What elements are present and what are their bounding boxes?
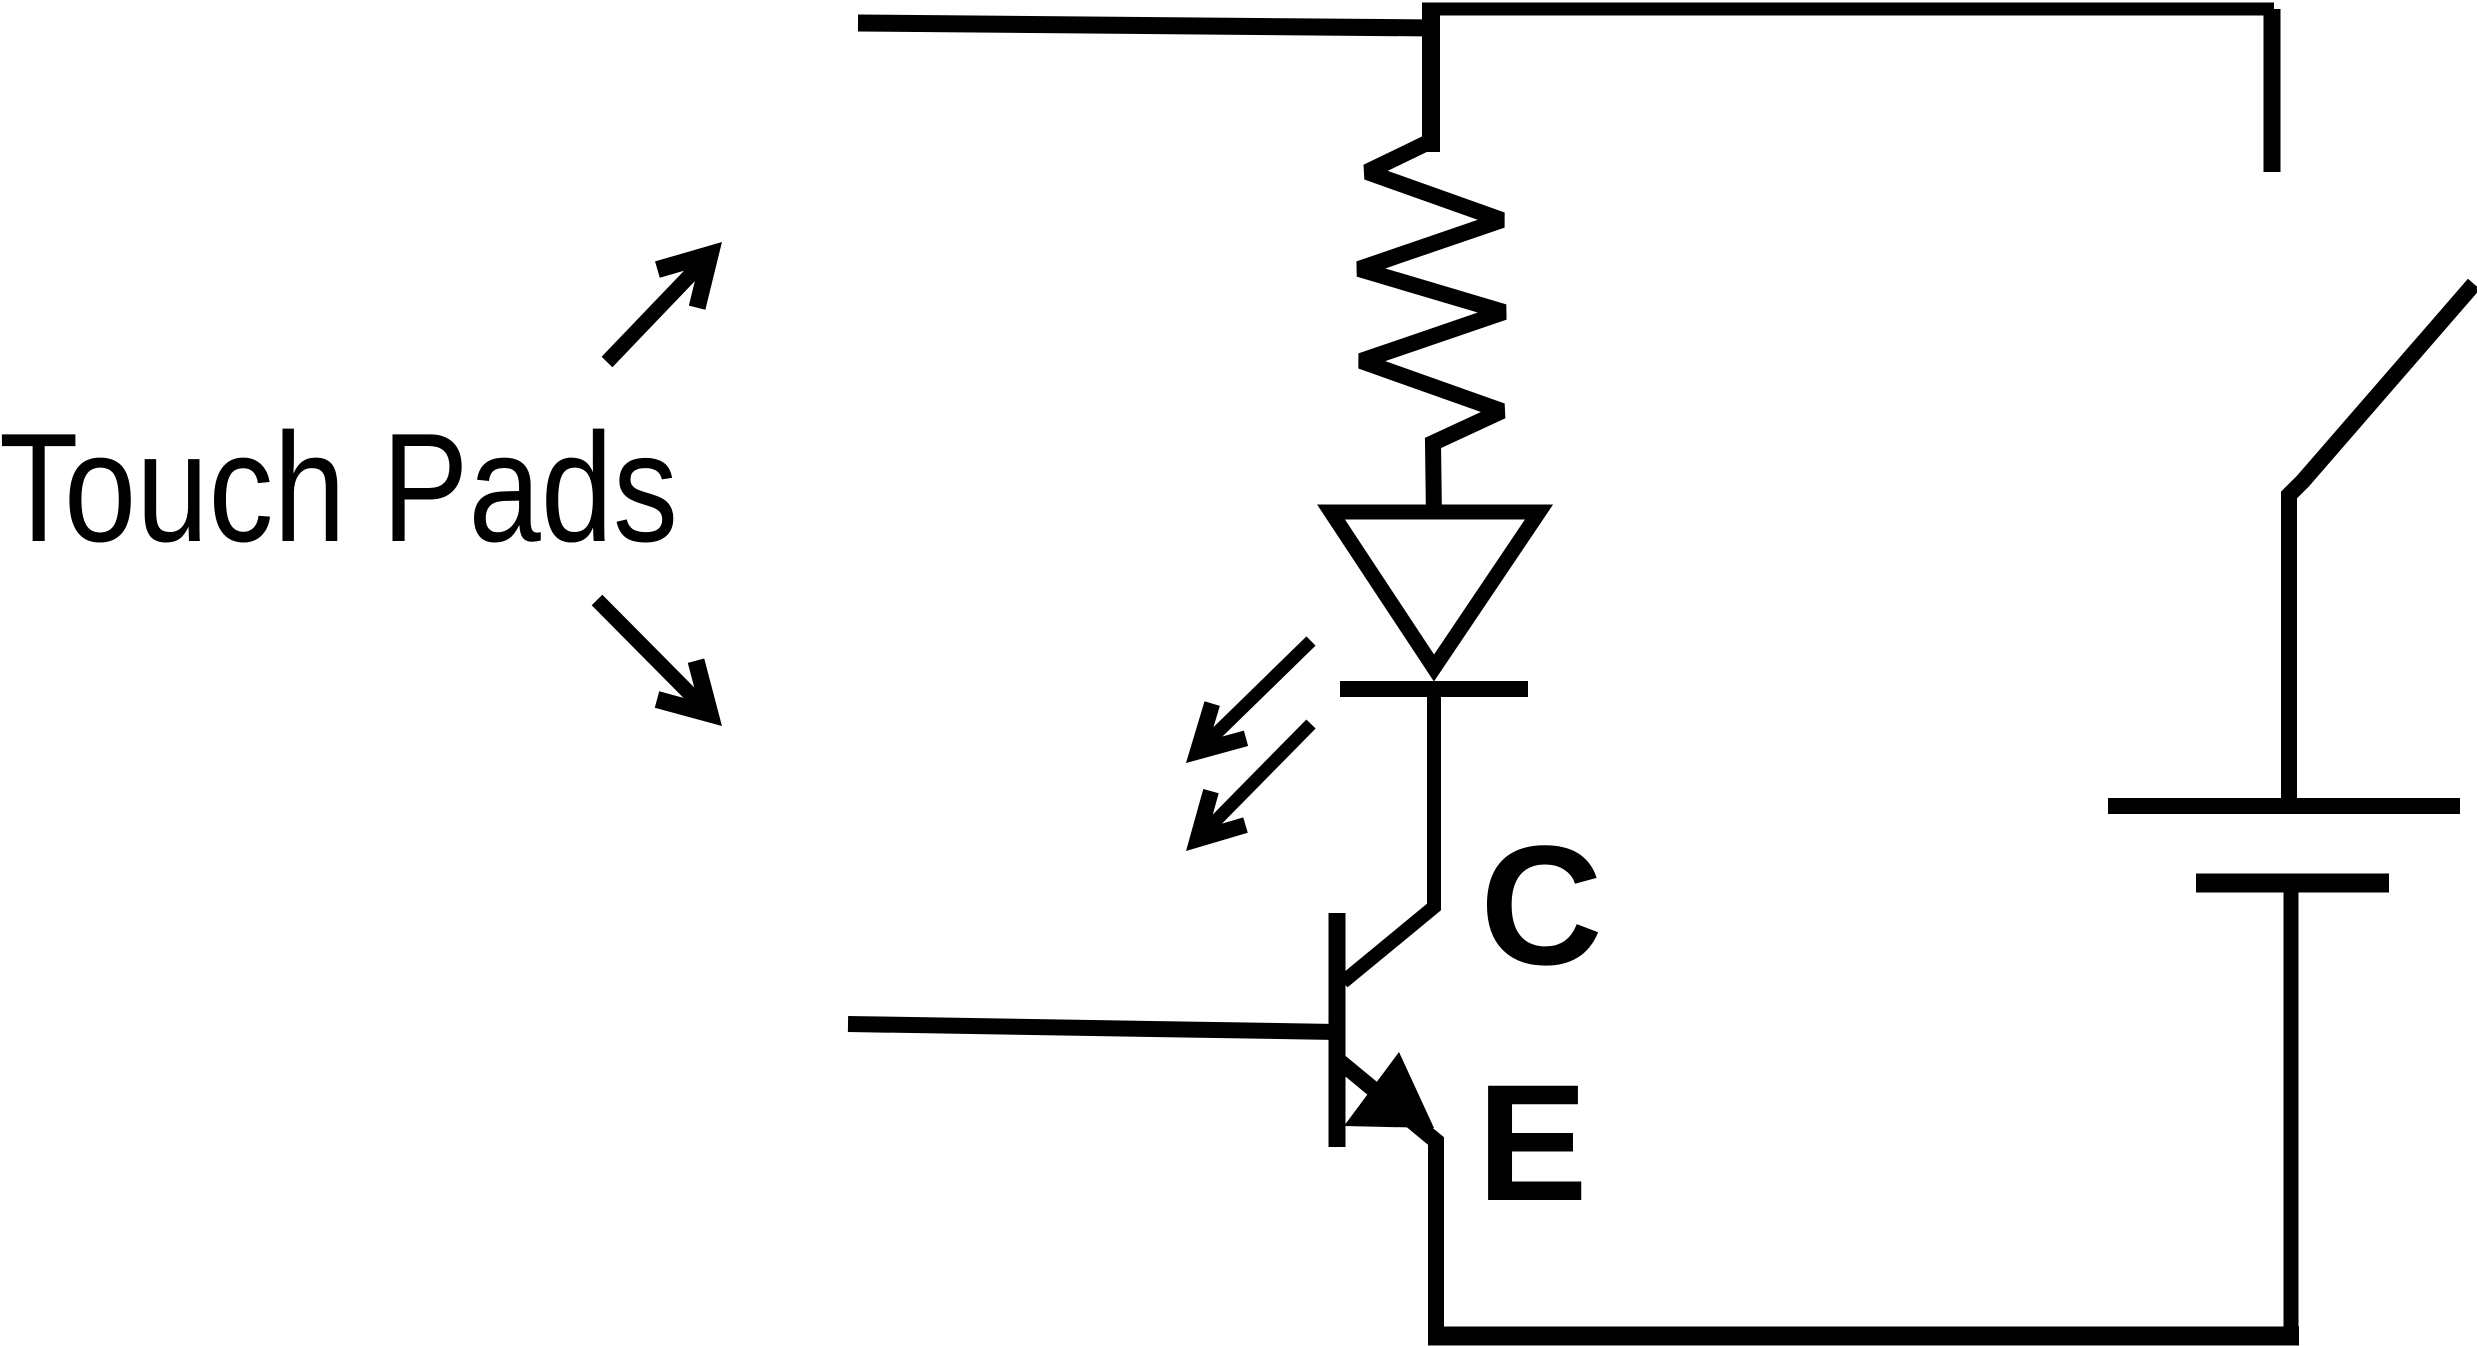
svg-text:Touch Pads: Touch Pads xyxy=(0,401,678,574)
wire bottom run xyxy=(1428,1327,2299,1346)
annotation arrow down head xyxy=(657,661,710,714)
transistor Q1 emitter lead xyxy=(1338,1060,1436,1340)
wire top-right horizontal xyxy=(1422,3,2274,16)
resistor R1 zigzag xyxy=(1359,141,1504,519)
svg-text:C: C xyxy=(1480,811,1603,1001)
battery B1 short plate (negative) xyxy=(2196,874,2389,893)
wire top-left horizontal (touch pad lead to resistor top node) xyxy=(858,23,1434,28)
light emission arrow 2 head xyxy=(1198,791,1246,839)
annotation arrow down (to bottom touch pad) shaft xyxy=(597,600,705,709)
wire base lead (left touch pad) xyxy=(848,1024,1337,1032)
wire LED cathode to transistor collector bend xyxy=(1343,697,1434,982)
annotation arrow up head xyxy=(657,254,710,307)
LED D1 cathode bar xyxy=(1340,681,1528,697)
wire battery negative riser xyxy=(2284,884,2299,1340)
light emission arrow 1 shaft xyxy=(1203,641,1312,747)
LED D1 triangle (anode) xyxy=(1331,512,1539,668)
light emission arrow 2 shaft xyxy=(1202,724,1311,835)
transistor Q1 emitter arrowhead xyxy=(1344,1052,1434,1128)
light emission arrow 1 head xyxy=(1198,704,1246,752)
wire top junction vertical drop to resistor xyxy=(1422,3,1440,152)
annotation arrow up (to top touch pad) shaft xyxy=(607,259,706,362)
transistor Q1 base bar xyxy=(1329,913,1346,1147)
wire switch top contact vertical xyxy=(2264,9,2281,172)
battery B1 long plate (positive) xyxy=(2108,798,2460,814)
wire battery positive to switch + switch SW1 blade xyxy=(2289,284,2474,806)
svg-text:E: E xyxy=(1477,1051,1588,1236)
